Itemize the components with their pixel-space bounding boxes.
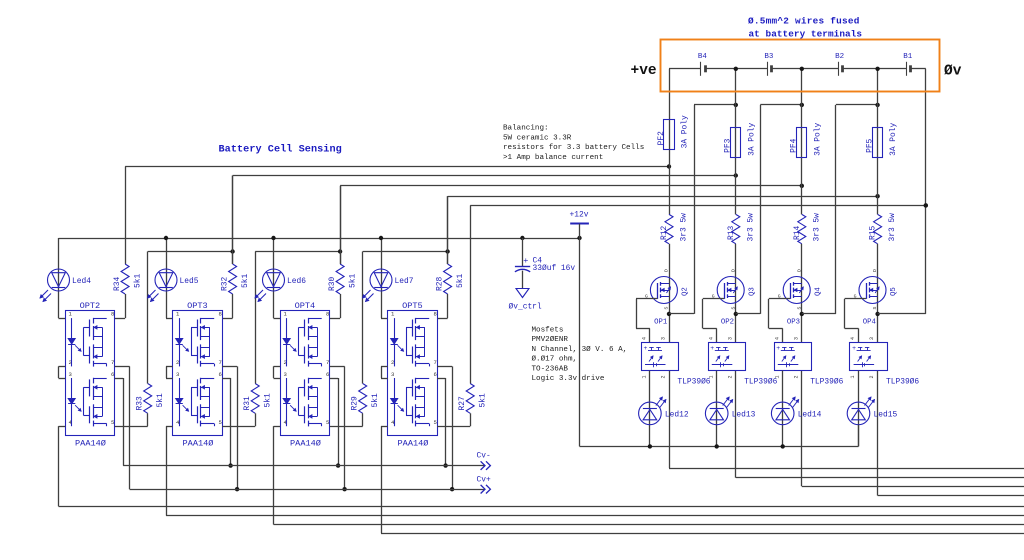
svg-text:3A Poly: 3A Poly [813,122,822,155]
svg-text:+: + [852,345,856,352]
svg-text:Ø.Ø17 ohm,: Ø.Ø17 ohm, [532,355,578,364]
svg-text:Mosfets: Mosfets [532,326,564,334]
svg-text:Q4: Q4 [814,287,822,296]
svg-text:OPT2: OPT2 [80,301,101,311]
svg-text:OP3: OP3 [787,319,800,327]
svg-text:6: 6 [111,371,114,378]
svg-text:5k1: 5k1 [479,393,488,407]
svg-text:+: + [776,345,780,352]
svg-text:TLP39Ø6: TLP39Ø6 [810,378,843,387]
svg-text:B3: B3 [764,53,774,61]
svg-text:R12: R12 [660,226,669,240]
svg-text:Balancing:: Balancing: [503,125,549,133]
svg-text:5k1: 5k1 [156,393,165,407]
svg-text:S: S [796,307,802,310]
svg-text:3: 3 [284,371,287,378]
svg-text:PF3: PF3 [724,138,733,152]
svg-text:R28: R28 [436,277,445,291]
svg-text:3: 3 [69,371,72,378]
svg-text:TO-236AB: TO-236AB [532,365,569,373]
svg-text:B4: B4 [698,53,708,61]
svg-text:8: 8 [219,311,222,318]
svg-text:PF2: PF2 [657,131,666,145]
svg-text:Øv_ctrl: Øv_ctrl [509,303,542,312]
svg-text:7: 7 [219,359,222,366]
svg-text:S: S [872,307,878,310]
svg-text:7: 7 [434,359,437,366]
svg-text:R27: R27 [458,396,467,410]
svg-text:TLP39Ø6: TLP39Ø6 [886,378,919,387]
svg-text:5: 5 [219,419,222,426]
svg-text:3A Poly: 3A Poly [889,122,898,155]
svg-text:PAA14Ø: PAA14Ø [183,439,214,449]
svg-text:OPT3: OPT3 [187,301,208,311]
svg-text:5k1: 5k1 [264,393,273,407]
svg-text:Logic 3.3v drive: Logic 3.3v drive [532,375,605,383]
svg-text:>1 Amp balance current: >1 Amp balance current [503,154,603,162]
svg-text:5k1: 5k1 [134,274,143,288]
svg-text:4: 4 [642,337,648,340]
svg-text:+ve: +ve [631,63,657,79]
svg-text:3r3 5w: 3r3 5w [680,213,689,242]
svg-text:Cv+: Cv+ [477,475,491,484]
svg-text:R29: R29 [351,396,360,410]
svg-text:5k1: 5k1 [456,274,465,288]
svg-text:3: 3 [793,337,799,340]
svg-text:OPT5: OPT5 [402,301,423,311]
svg-text:3: 3 [391,371,394,378]
svg-text:5k1: 5k1 [241,274,250,288]
svg-text:OPT4: OPT4 [295,301,316,311]
svg-text:1: 1 [774,375,780,378]
svg-text:PF5: PF5 [865,138,874,152]
svg-text:D: D [664,269,670,272]
svg-text:6: 6 [326,371,329,378]
svg-text:3: 3 [176,371,179,378]
svg-text:Led5: Led5 [180,277,199,286]
svg-text:3r3 5w: 3r3 5w [888,213,897,242]
svg-text:+: + [710,345,714,352]
svg-text:3: 3 [727,337,733,340]
svg-text:2: 2 [391,359,394,366]
svg-text:R33: R33 [136,396,145,410]
svg-text:8: 8 [434,311,437,318]
svg-text:1: 1 [850,375,856,378]
svg-text:R15: R15 [869,226,878,240]
svg-text:PAA14Ø: PAA14Ø [398,439,429,449]
svg-text:5: 5 [434,419,437,426]
svg-text:7: 7 [326,359,329,366]
svg-text:Cv-: Cv- [477,452,491,461]
svg-text:4: 4 [850,337,856,340]
svg-text:Led15: Led15 [874,411,898,420]
svg-text:R34: R34 [113,277,122,291]
svg-text:at battery terminals: at battery terminals [749,29,863,40]
svg-text:3A Poly: 3A Poly [681,115,690,148]
svg-text:Q3: Q3 [748,287,756,296]
svg-text:8: 8 [111,311,114,318]
svg-text:TLP39Ø6: TLP39Ø6 [744,378,777,387]
svg-text:8: 8 [326,311,329,318]
svg-text:+: + [644,345,648,352]
svg-text:2: 2 [661,375,667,378]
svg-text:33Øuf 16v: 33Øuf 16v [533,264,576,273]
svg-text:PF4: PF4 [790,138,799,152]
svg-text:OP4: OP4 [863,319,877,327]
svg-text:Led14: Led14 [798,411,822,420]
svg-text:+: + [523,256,528,266]
svg-text:PAA14Ø: PAA14Ø [75,439,106,449]
svg-text:7: 7 [111,359,114,366]
svg-text:6: 6 [219,371,222,378]
svg-text:6: 6 [434,371,437,378]
svg-text:3r3 5w: 3r3 5w [746,213,755,242]
svg-text:R13: R13 [727,226,736,240]
svg-text:Ø.5mm^2 wires fused: Ø.5mm^2 wires fused [748,16,860,27]
svg-text:Led6: Led6 [287,277,306,286]
svg-text:2: 2 [727,375,733,378]
svg-text:3: 3 [661,337,667,340]
svg-text:R32: R32 [221,277,230,291]
svg-text:resistors for 3.3 battery Cell: resistors for 3.3 battery Cells [503,144,644,152]
svg-text:1: 1 [708,375,714,378]
svg-text:Q5: Q5 [890,287,898,296]
svg-text:R14: R14 [793,226,802,240]
svg-text:Led13: Led13 [732,411,756,420]
svg-text:S: S [730,307,736,310]
svg-text:4: 4 [774,337,780,340]
svg-text:Led7: Led7 [395,277,414,286]
svg-text:PMV2ØENR: PMV2ØENR [532,335,569,344]
svg-text:4: 4 [708,337,714,340]
svg-text:3r3 5w: 3r3 5w [812,213,821,242]
svg-text:Øv: Øv [944,64,962,80]
svg-text:PAA14Ø: PAA14Ø [290,439,321,449]
svg-text:3A Poly: 3A Poly [747,122,756,155]
svg-text:B2: B2 [835,53,844,61]
svg-text:Q2: Q2 [682,287,690,296]
svg-text:2: 2 [176,359,179,366]
svg-text:5W ceramic 3.3R: 5W ceramic 3.3R [503,134,572,142]
svg-text:R30: R30 [328,277,337,291]
svg-text:2: 2 [793,375,799,378]
svg-text:5k1: 5k1 [371,393,380,407]
svg-text:Led4: Led4 [72,277,91,286]
svg-text:Led12: Led12 [665,411,689,420]
svg-text:OP1: OP1 [654,319,668,327]
svg-text:TLP39Ø6: TLP39Ø6 [677,378,710,387]
svg-text:5: 5 [111,419,114,426]
svg-text:2: 2 [869,375,875,378]
svg-text:1: 1 [642,375,648,378]
svg-text:D: D [730,269,736,272]
svg-text:B1: B1 [903,53,913,61]
svg-text:R31: R31 [243,396,252,410]
svg-text:OP2: OP2 [721,319,734,327]
svg-text:5k1: 5k1 [349,274,358,288]
svg-text:D: D [872,269,878,272]
svg-text:D: D [796,269,802,272]
svg-text:5: 5 [326,419,329,426]
svg-text:3: 3 [869,337,875,340]
svg-text:S: S [664,307,670,310]
svg-text:+12v: +12v [570,211,589,220]
svg-text:Battery Cell Sensing: Battery Cell Sensing [219,144,342,156]
